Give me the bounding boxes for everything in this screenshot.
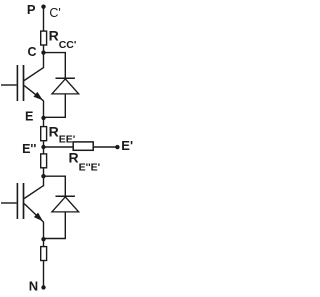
svg-text:N: N: [29, 279, 38, 294]
svg-text:P: P: [27, 2, 36, 17]
svg-text:C: C: [28, 45, 37, 59]
svg-text:E: E: [25, 110, 33, 124]
svg-text:REE': REE': [49, 124, 76, 146]
svg-text:RCC': RCC': [49, 28, 77, 51]
svg-text:C': C': [49, 6, 60, 20]
svg-text:E': E': [121, 138, 133, 153]
svg-text:E'': E'': [22, 142, 36, 156]
svg-text:RE''E': RE''E': [69, 150, 101, 174]
